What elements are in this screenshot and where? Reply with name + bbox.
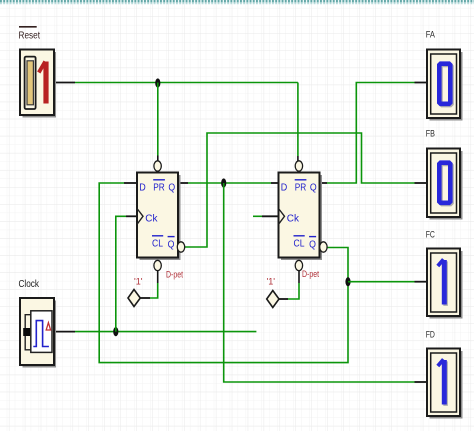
svg-text:FB: FB <box>426 129 435 140</box>
node Qbar2 junction <box>345 277 350 286</box>
svg-text:'1': '1' <box>134 277 143 287</box>
node Q1 junction <box>221 178 226 187</box>
svg-text:'1': '1' <box>267 277 276 287</box>
svg-text:Ck: Ck <box>287 213 300 225</box>
wire PR1 drop <box>157 83 159 162</box>
pin bubble Qbar1 <box>177 242 184 252</box>
pin bubble PR1 <box>154 161 161 171</box>
flip-flop FF1 D-pet <box>137 173 181 261</box>
wire Q2 to FA <box>320 83 428 184</box>
svg-text:D: D <box>281 182 288 194</box>
wire clock to Ck1 <box>116 216 137 331</box>
svg-text:Q: Q <box>168 238 175 250</box>
pin bubble CL2 <box>295 260 302 270</box>
pin bubble Qbar2 <box>320 242 327 252</box>
clock generator <box>20 298 56 368</box>
pin bubble CL1 <box>154 260 161 270</box>
svg-text:PR: PR <box>295 182 307 194</box>
wire CL1 constant <box>140 271 157 298</box>
wire Qbar2 feedback to D1 <box>99 183 348 363</box>
switch RESET <box>20 50 56 118</box>
display FC <box>426 230 463 319</box>
svg-text:D: D <box>139 182 146 194</box>
constant '1' pin FF2 <box>267 277 280 308</box>
wire reset output to junction <box>54 82 158 84</box>
svg-text:D-pet: D-pet <box>302 269 319 279</box>
wire PR2 drop <box>297 83 299 162</box>
node clock junction <box>113 327 118 336</box>
display FA <box>426 30 463 121</box>
wire Qbar2 to FC <box>348 281 427 283</box>
label D-pet FF1 <box>166 270 183 280</box>
svg-text:Reset: Reset <box>19 31 41 42</box>
wire Ck2 stub <box>253 215 279 217</box>
svg-text:Q: Q <box>168 182 175 194</box>
svg-text:PR: PR <box>153 182 165 194</box>
svg-text:Ck: Ck <box>145 213 158 225</box>
label Reset <box>19 27 41 42</box>
wire Q1 to D2 <box>178 182 279 184</box>
svg-text:Q: Q <box>309 238 316 250</box>
label Clock <box>19 279 40 290</box>
wire clock output <box>54 331 256 333</box>
wire CL2 constant <box>279 271 299 299</box>
display FD <box>426 330 463 419</box>
svg-text:FA: FA <box>426 30 436 41</box>
constant '1' pin FF1 <box>128 277 143 307</box>
node reset junction <box>155 78 160 87</box>
flip-flop FF2 D-pet <box>279 173 323 261</box>
pin bubble PR2 <box>295 161 302 171</box>
svg-text:Q: Q <box>310 182 317 194</box>
wire Qbar1 to FB <box>185 133 427 247</box>
svg-text:FC: FC <box>426 230 435 241</box>
display FB <box>426 129 463 220</box>
wire reset junction to PR2 corner <box>158 82 298 84</box>
svg-text:Clock: Clock <box>19 279 40 290</box>
svg-text:FD: FD <box>426 330 435 341</box>
label D-pet FF2 <box>302 269 319 279</box>
svg-text:D-pet: D-pet <box>166 270 183 280</box>
svg-text:CL: CL <box>152 238 163 250</box>
svg-text:CL: CL <box>294 238 305 250</box>
wire Q1 to FD <box>224 183 427 382</box>
